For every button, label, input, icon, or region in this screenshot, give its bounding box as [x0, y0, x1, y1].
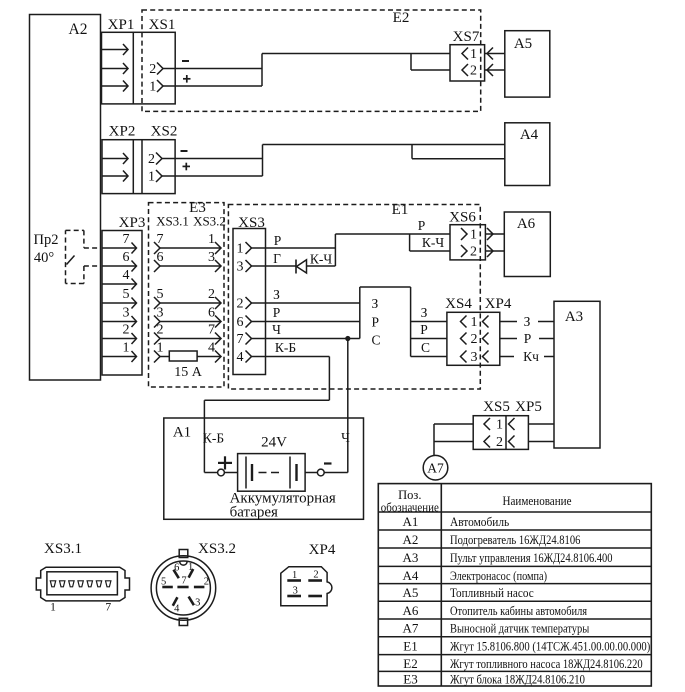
svg-text:7: 7 [237, 332, 244, 347]
svg-text:Е2: Е2 [393, 10, 410, 26]
svg-text:XP1: XP1 [108, 17, 135, 33]
svg-text:Ч: Ч [272, 322, 281, 337]
sensor A7 (выносной датчик) [423, 455, 448, 480]
svg-text:Р: Р [372, 315, 380, 330]
svg-text:6: 6 [237, 315, 244, 330]
block A6 (отопитель кабины) [504, 212, 550, 277]
wire Ч drop to battery - [347, 339, 349, 473]
wire XS3.1 pin 7 to XS3.2 pin 1 [154, 232, 221, 254]
svg-text:1: 1 [470, 228, 477, 243]
svg-text:XS1: XS1 [149, 17, 176, 33]
fuse 15 А [169, 351, 202, 380]
XP3 pin 4 [102, 268, 137, 290]
harness bundle box [360, 287, 411, 357]
XS3 pin 4 [237, 350, 266, 365]
svg-text:А1: А1 [173, 425, 191, 441]
svg-text:Р: Р [420, 322, 428, 337]
XP4 face pin 2 [308, 570, 322, 581]
svg-text:З: З [273, 287, 280, 302]
XP4 pin 3 [483, 351, 489, 363]
wire С to XS4 pin3 [411, 340, 447, 357]
wire XP5-2 to A3 [528, 441, 554, 443]
wire К-Б drop to battery + [203, 400, 205, 472]
XP3 pin 7 [102, 232, 137, 254]
svg-text:3: 3 [237, 260, 244, 275]
XS3.2 face pin 3 [189, 597, 201, 609]
diode VD (К-Ч) [296, 252, 335, 274]
svg-text:3: 3 [195, 598, 200, 609]
XS3.2 face pin 6 [174, 563, 180, 579]
XP2 arrow pins [102, 153, 128, 182]
svg-text:2: 2 [204, 577, 209, 588]
svg-text:XS4: XS4 [445, 296, 472, 312]
XS4 pin 1 [461, 315, 478, 330]
wire XS3 pin7 (Ч) [266, 322, 360, 339]
harness E3 boundary [149, 200, 225, 387]
XS4 pin 3 [461, 350, 478, 365]
fuse Пр2 40° [34, 230, 84, 283]
svg-text:обозначение: обозначение [381, 501, 439, 515]
svg-text:А1: А1 [403, 514, 419, 529]
svg-text:XS2: XS2 [151, 124, 178, 140]
wire Р to XS4 pin2 [411, 322, 447, 339]
connector face XS3.1 [36, 541, 129, 601]
svg-text:1: 1 [123, 341, 130, 356]
connector XS5/XP5 [473, 399, 542, 449]
svg-text:Выносной датчик температуры: Выносной датчик температуры [450, 621, 590, 636]
XS3.1 face pin 4 [78, 581, 83, 587]
XS3.2 face pin 2 [194, 577, 209, 588]
XP5 pin 2 [509, 436, 515, 448]
svg-text:15 А: 15 А [174, 365, 203, 380]
wire XS7-2 to A5 [485, 64, 505, 76]
svg-text:XP4: XP4 [309, 542, 336, 558]
svg-text:1: 1 [471, 315, 478, 330]
battery GB rectangle [238, 454, 306, 492]
svg-text:4: 4 [208, 341, 215, 356]
block A1 (аккумуляторная батарея) [164, 418, 364, 519]
svg-text:XS6: XS6 [449, 210, 476, 226]
svg-text:ХР3: ХР3 [119, 215, 146, 231]
svg-text:С: С [372, 333, 381, 348]
svg-text:40°: 40° [34, 250, 55, 266]
svg-text:Жгут блока 18ЖД24.8106.210: Жгут блока 18ЖД24.8106.210 [450, 672, 585, 687]
XS3.1 face pin 3 [69, 581, 74, 587]
block A4 (электронасос) [505, 123, 550, 186]
svg-text:XS3: XS3 [238, 215, 265, 231]
svg-text:батарея: батарея [230, 505, 278, 521]
wire XP4-2 to A3 (Р) [500, 331, 554, 346]
wire riser at x=262 [261, 54, 263, 87]
battery + terminal [204, 456, 237, 476]
XS3.2 face pin 7 [177, 576, 188, 588]
svg-text:А2: А2 [403, 532, 419, 547]
svg-text:Отопитель кабины автомобиля: Отопитель кабины автомобиля [450, 603, 587, 618]
XS3.1 face pin 5 [87, 581, 92, 587]
svg-text:1: 1 [148, 170, 155, 185]
XS3 pin 1 [237, 242, 266, 257]
XP4 face pin 3 [287, 586, 301, 597]
svg-text:XP4: XP4 [485, 296, 512, 312]
wire XS3.1 pin 5 to XS3.2 pin 2 [154, 287, 221, 309]
XS3 pin 7 [237, 332, 266, 347]
XP4 pin 2 [483, 333, 489, 345]
XP3 pin 2 [102, 323, 137, 345]
wire XS1 pin2 (-) [163, 61, 262, 69]
XS3 pin 6 [237, 315, 266, 330]
wire XS3 pin3 (Г) with diode [266, 251, 297, 266]
svg-text:Ч: Ч [341, 430, 350, 445]
svg-text:7: 7 [208, 323, 215, 338]
svg-text:А3: А3 [403, 550, 419, 565]
XP3 pin 3 [102, 306, 137, 328]
connector XP1/XS1 [102, 17, 176, 104]
wire drop at x=411 [410, 54, 412, 71]
svg-text:2: 2 [208, 287, 215, 302]
svg-text:3: 3 [471, 350, 478, 365]
svg-text:Р: Р [273, 305, 281, 320]
svg-text:3: 3 [208, 250, 215, 265]
svg-text:Автомобиль: Автомобиль [450, 514, 509, 529]
svg-text:5: 5 [161, 577, 166, 588]
wire lower run to A4 [412, 158, 505, 160]
svg-text:З: З [421, 305, 428, 320]
svg-text:А6: А6 [517, 216, 536, 232]
XP1 arrow pins [102, 44, 129, 92]
svg-text:Г: Г [273, 251, 281, 266]
svg-text:Е1: Е1 [392, 202, 409, 218]
svg-text:3: 3 [123, 306, 130, 321]
block A2 (подогреватель) [30, 15, 101, 381]
svg-text:Жгут топливного насоса 18ЖД24.: Жгут топливного насоса 18ЖД24.8106.220 [450, 656, 643, 671]
svg-text:Топливный насос: Топливный насос [450, 585, 534, 600]
svg-text:Жгут 15.8106.800 (14ТСЖ.451.00: Жгут 15.8106.800 (14ТСЖ.451.00.00.00.000… [450, 639, 650, 654]
wire top run to XS7 pin1 [262, 53, 450, 55]
svg-text:XS7: XS7 [453, 29, 480, 45]
svg-text:XS3.1: XS3.1 [44, 541, 82, 557]
XS3.1 face pin 1 [50, 581, 55, 587]
junction on Ч wire [345, 336, 350, 341]
wire XS3 pin4 (К-Б) [266, 340, 330, 357]
XS3.2 face pin 4 [173, 597, 180, 614]
svg-text:XP5: XP5 [515, 399, 542, 415]
wire XS3.1 pin 1 to XS3.2 pin 4 [154, 341, 221, 363]
svg-text:Наименование: Наименование [503, 493, 572, 508]
wire drop at x=412 [411, 145, 413, 159]
svg-text:Р: Р [418, 218, 426, 233]
wire XS3.1 pin 3 to XS3.2 pin 6 [154, 306, 221, 328]
wire XS3 pin2 (З) [266, 287, 360, 303]
svg-text:К-Ч: К-Ч [422, 235, 445, 250]
wire XP5-1 to A3 [528, 423, 554, 425]
connector XS6 [449, 210, 485, 260]
svg-text:4: 4 [237, 350, 244, 365]
svg-text:2: 2 [149, 62, 156, 77]
XS1 pin 2 [149, 62, 163, 77]
svg-text:2: 2 [470, 64, 477, 79]
XP4 face pin 1 [287, 570, 301, 581]
battery cells [246, 457, 297, 489]
svg-text:А5: А5 [514, 36, 532, 52]
XS5 pin 2 [484, 435, 503, 450]
wire З to XS4 pin1 [411, 305, 447, 322]
svg-text:2: 2 [470, 245, 477, 260]
wire К-Б horizontal run [204, 399, 329, 401]
connector XS3 [233, 215, 266, 375]
harness E2 boundary [142, 10, 481, 111]
XS4 pin 2 [461, 332, 478, 347]
connector face XS3.2 [151, 541, 236, 626]
svg-text:З: З [372, 296, 379, 311]
wire XS3.1 pin 6 to XS3.2 pin 3 [154, 250, 221, 272]
svg-text:5: 5 [123, 287, 130, 302]
wire XS5-1 left [434, 423, 473, 425]
svg-text:Пр2: Пр2 [34, 232, 59, 248]
wire XS2 pin2 (-) [162, 151, 263, 159]
wire XS7-1 to A5 [485, 48, 505, 60]
svg-text:Подогреватель 16ЖД24.8106: Подогреватель 16ЖД24.8106 [450, 532, 581, 547]
XS3.1 face pin 6 [96, 581, 101, 587]
svg-text:К-Б: К-Б [275, 340, 296, 355]
label Аккумуляторная батарея [230, 491, 336, 521]
wire to XS7 pin2 [411, 69, 450, 71]
XS6 pin 2 [461, 245, 477, 260]
XS3.2 face pin 1 [188, 562, 193, 578]
battery - terminal [305, 464, 348, 476]
connector XP2/XS2 [102, 124, 177, 194]
svg-text:1: 1 [496, 418, 503, 433]
svg-text:XP2: XP2 [109, 124, 136, 140]
wire К-Б riser at x=329.4 [328, 357, 330, 401]
svg-text:А5: А5 [403, 585, 419, 600]
wire XS1 pin1 (+) [163, 75, 262, 86]
svg-text:А7: А7 [427, 461, 444, 476]
svg-text:Электронасос (помпа): Электронасос (помпа) [450, 568, 547, 583]
wire run Р to XS6 [335, 218, 450, 234]
svg-text:1: 1 [237, 242, 244, 257]
svg-text:Пульт управления 16ЖД24.8106.4: Пульт управления 16ЖД24.8106.400 [450, 550, 613, 565]
svg-text:Е1: Е1 [403, 639, 417, 654]
svg-text:6: 6 [208, 306, 215, 321]
svg-text:2: 2 [237, 297, 244, 312]
wire XS6-1 to A6 [485, 228, 504, 240]
svg-text:6: 6 [123, 250, 130, 265]
svg-text:4: 4 [174, 604, 180, 615]
wire XS5-2 left [434, 441, 473, 443]
wire XS3 pin6 (Р) [266, 305, 360, 322]
wire (dashed) Пр2 to row 7 [84, 247, 101, 249]
connector face XP4 [281, 542, 336, 606]
svg-text:1: 1 [188, 562, 193, 573]
svg-text:Е2: Е2 [403, 656, 417, 671]
harness E1 boundary [228, 202, 480, 389]
XS3.1 face pin 7 [106, 581, 111, 587]
wire riser at x=262.5 [262, 145, 264, 177]
wire XP4-1 to A3 (З) [500, 314, 554, 329]
block A3 (пульт управления) [554, 301, 600, 448]
XS7 pin 1 [462, 47, 477, 62]
XS1 pin 1 [149, 80, 163, 95]
wire riser to A7 [433, 424, 435, 455]
svg-text:Кч: Кч [523, 349, 539, 364]
svg-text:2: 2 [123, 323, 130, 338]
XP4 pin 1 [483, 316, 489, 328]
wire XS2 pin1 (+) [162, 163, 263, 176]
XP3 pin 6 [102, 250, 137, 272]
svg-text:1: 1 [470, 47, 477, 62]
svg-text:2: 2 [148, 152, 155, 167]
svg-text:А7: А7 [403, 621, 419, 636]
svg-text:Е3: Е3 [403, 672, 417, 687]
svg-text:4: 4 [123, 268, 130, 283]
XS3.2 face pin 5 [161, 577, 173, 588]
XS5 pin 1 [484, 418, 503, 433]
svg-text:2: 2 [313, 570, 318, 581]
svg-text:7: 7 [105, 602, 111, 614]
wire drop at x=409.6 (К-Ч) [410, 234, 450, 251]
connector XS4/XP4 [445, 296, 512, 365]
XP5 pin 1 [509, 418, 515, 430]
svg-text:XS3.2: XS3.2 [198, 541, 236, 557]
svg-text:XS3.2: XS3.2 [193, 214, 226, 229]
svg-text:Р: Р [524, 331, 532, 346]
XP3 pin 5 [102, 287, 137, 309]
wire riser at x=335.4 [334, 234, 336, 266]
svg-text:К-Б: К-Б [203, 431, 224, 446]
svg-text:С: С [421, 340, 430, 355]
svg-text:А4: А4 [403, 568, 419, 583]
svg-text:24V: 24V [261, 435, 287, 451]
XS2 pin 2 [148, 152, 162, 167]
wire XS3.1 pin 2 to XS3.2 pin 7 [154, 323, 221, 345]
wire XS3 pin1 (Р) [266, 233, 336, 248]
block A5 (топливный насос) [505, 31, 550, 97]
wire (dashed) Пр2 to row 6 [84, 265, 101, 267]
svg-text:А6: А6 [403, 603, 419, 618]
parts table [378, 484, 651, 687]
wire XP4-3 to A3 (Кч) [500, 349, 554, 364]
XP4 face pin 4 [308, 595, 322, 598]
svg-text:2: 2 [496, 435, 503, 450]
wire top run to A4 [263, 144, 505, 146]
svg-text:2: 2 [471, 332, 478, 347]
svg-text:7: 7 [181, 576, 186, 587]
XS6 pin 1 [461, 228, 477, 243]
svg-text:А3: А3 [565, 309, 583, 325]
svg-text:К-Ч: К-Ч [310, 252, 333, 267]
svg-text:1: 1 [149, 80, 156, 95]
svg-text:7: 7 [123, 232, 130, 247]
svg-text:З: З [524, 314, 531, 329]
svg-text:А2: А2 [69, 21, 88, 38]
XS2 pin 1 [148, 170, 162, 185]
XS3 pin 2 [237, 297, 266, 312]
svg-text:6: 6 [174, 563, 179, 574]
XP3 pin 1 [102, 341, 137, 363]
connector XS7 [450, 29, 485, 81]
svg-text:1: 1 [208, 232, 215, 247]
XS3 pin 3 [237, 260, 266, 275]
XS7 pin 2 [462, 64, 477, 79]
svg-text:XS3.1: XS3.1 [156, 214, 189, 229]
svg-text:А4: А4 [520, 127, 539, 143]
svg-text:XS5: XS5 [483, 399, 510, 415]
connector XP3 [102, 215, 145, 375]
wire XS6-2 to A6 [485, 245, 504, 257]
svg-text:1: 1 [50, 602, 56, 614]
XS3.1 face pin 2 [60, 581, 65, 587]
svg-text:Р: Р [274, 233, 282, 248]
